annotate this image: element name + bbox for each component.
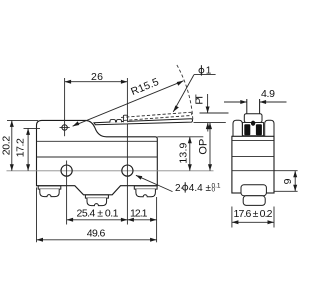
hinge lever free position (dashed) bottom edge (124, 116, 191, 121)
svg-text:25.4 ± 0.1: 25.4 ± 0.1 (77, 208, 119, 220)
20.2 top extension line (7, 119, 38, 121)
pivot vertical extension (ext for dim 26 left) (64, 78, 66, 136)
svg-text:20.2: 20.2 (0, 136, 12, 156)
R15.5 leader line with arrows (73, 81, 184, 126)
13.9 dimension line with arrows (189, 137, 191, 171)
side view ear left (233, 120, 242, 136)
switch body outline (front view) (37, 120, 158, 194)
side view seam line 2 (232, 156, 274, 158)
svg-text:26: 26 (91, 71, 103, 83)
hinge lever free position (dashed) top edge (121, 112, 191, 117)
svg-text:17.2: 17.2 (15, 138, 27, 157)
17.2 dimension line with arrows (27, 128, 29, 170)
dashed lever tip end (191, 112, 192, 115)
12.1 dimension line with arrows (127, 219, 156, 221)
body seam line lower (37, 156, 158, 158)
svg-text:13.9: 13.9 (177, 142, 189, 163)
PT free-position reference line (200, 112, 229, 114)
side view body (232, 136, 274, 193)
hinge lever (solid, operating position) (94, 119, 193, 125)
side view terminal lower (243, 196, 265, 206)
17.6 extension lines (232, 207, 274, 228)
side view seal black left (244, 124, 250, 135)
mounting hole right (122, 165, 133, 176)
49.6 left extension line (36, 188, 38, 243)
side view plunger (247, 99, 260, 114)
9 dimension extension lines (275, 171, 298, 192)
body seam line upper (37, 140, 158, 142)
20.2 dimension line with arrows (11, 120, 13, 170)
svg-text:OP: OP (198, 139, 210, 155)
17.6 dimension line with arrows (232, 221, 274, 223)
mounting hole left extension line (66, 161, 68, 225)
25.4 dimension line with arrows (67, 219, 128, 221)
9 dimension line with arrows (294, 171, 296, 192)
side view seal black right (256, 124, 262, 135)
side view ear right (265, 120, 274, 136)
lever bracket bump 2 (117, 120, 122, 123)
lever pivot rivet (60, 125, 70, 130)
svg-text:4.4 ±: 4.4 ± (189, 183, 212, 194)
PT dimension arrows (207, 94, 209, 113)
svg-text:0: 0 (212, 187, 216, 194)
centerline through mounting holes (gray) (7, 170, 214, 172)
lever bracket bump 1 (110, 120, 116, 123)
lever bracket end tab (123, 115, 127, 122)
svg-text:17.6 ± 0.2: 17.6 ± 0.2 (234, 208, 273, 220)
12.1/49.6 right extension line (156, 197, 158, 242)
svg-text:4.9: 4.9 (261, 88, 275, 100)
svg-text:1: 1 (206, 65, 212, 76)
mounting hole right extension line (also ext for dim 26 / 12.1) (126, 78, 128, 225)
terminal screw middle (front view) (85, 195, 108, 206)
mounting hole left (61, 165, 72, 176)
svg-text:PT: PT (194, 94, 206, 105)
side view terminal upper (241, 185, 266, 196)
OP dimension line with arrows (209, 123, 211, 171)
side view seam line 3 (232, 170, 274, 172)
phi-1 leader (173, 75, 215, 112)
4.9 dimension line with arrows (224, 101, 287, 103)
13.9 top extension line (body top extended) (157, 136, 203, 138)
svg-text:9: 9 (282, 178, 294, 184)
side view plunger black dot (251, 121, 255, 126)
dimension 26: dim line with arrows (65, 81, 128, 83)
lever bottom extension line (PT bottom / OP top reference) (194, 122, 226, 124)
dashed swing arc of lever tip (177, 65, 193, 120)
17.2 top extension line (pivot centerline) (24, 127, 41, 129)
phi-1 text (199, 68, 204, 73)
svg-text:12.1: 12.1 (130, 208, 148, 220)
terminal screw left (front view) (38, 186, 61, 197)
49.6 dimension line with arrows (37, 239, 157, 241)
terminal screw right (front view) (134, 186, 157, 197)
side view seal housing outline (243, 123, 264, 136)
2-phi4.4 leader with arrow (136, 175, 173, 191)
svg-text:49.6: 49.6 (87, 227, 106, 239)
side view plunger cap (244, 114, 262, 123)
side view seam line 1 (232, 139, 274, 141)
